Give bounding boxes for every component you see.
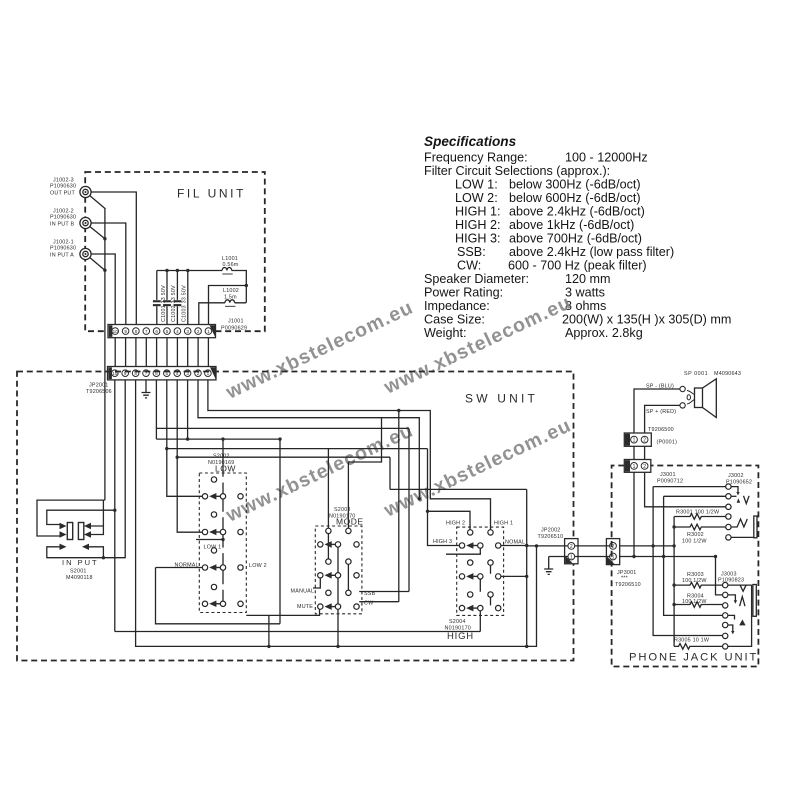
- svg-text:S2001: S2001: [70, 569, 87, 575]
- junction dot B: [103, 237, 106, 240]
- wire SSB stub: [359, 591, 409, 593]
- junction dot low row2 branch: [176, 456, 179, 459]
- wire pin9 drop to input bottom: [103, 380, 125, 558]
- wire pin4 cascade and LOW row2: [177, 380, 390, 532]
- svg-text:PHONE JACK UNIT: PHONE JACK UNIT: [629, 652, 758, 664]
- svg-text:JP2002: JP2002: [541, 528, 560, 534]
- svg-text:Impedance:: Impedance:: [424, 299, 490, 313]
- svg-text:10: 10: [113, 329, 119, 334]
- capacitor C1001: [153, 300, 161, 306]
- svg-text:MODE: MODE: [336, 517, 364, 527]
- wire NOMAL to riser: [501, 545, 527, 547]
- connector JP2002: [565, 539, 578, 564]
- switch S2001 contact left: [67, 523, 72, 540]
- wire JP3001 pin1 right: [620, 556, 716, 558]
- switch S2004 HIGH: [457, 527, 504, 615]
- JP2001 pin numbers: [112, 371, 209, 376]
- junction dot p3 end: [186, 437, 189, 440]
- wire LOW1 junction: [196, 535, 223, 548]
- connector T9206500: [624, 433, 651, 446]
- wire SP plus: [645, 405, 680, 433]
- wire pin10 net riser: [114, 380, 116, 632]
- svg-text:600 - 700 Hz (peak filter): 600 - 700 Hz (peak filter): [508, 259, 647, 273]
- svg-text:P1090630: P1090630: [50, 246, 76, 252]
- wire MODE center links: [328, 534, 348, 604]
- svg-text:P1090630: P1090630: [50, 215, 76, 221]
- svg-text:S2003: S2003: [334, 507, 351, 513]
- switch S2002 LOW: [199, 473, 246, 613]
- switch S2001 contact right: [78, 523, 83, 540]
- svg-text:0.56m: 0.56m: [223, 262, 239, 268]
- svg-text:MUTE: MUTE: [297, 604, 313, 610]
- svg-text:J3002: J3002: [728, 473, 744, 479]
- svg-text:HIGH 1: HIGH 1: [494, 521, 513, 527]
- svg-text:Power Rating:: Power Rating:: [424, 286, 503, 300]
- svg-text:R3002: R3002: [687, 532, 704, 538]
- svg-text:above 2.4kHz (-6dB/oct): above 2.4kHz (-6dB/oct): [509, 205, 645, 219]
- wire JP2002-JP3001 pin1: [575, 556, 610, 558]
- jack J3002 contact symbols: [731, 487, 757, 538]
- svg-text:FIL UNIT: FIL UNIT: [177, 187, 246, 201]
- svg-text:LOW 2:: LOW 2:: [455, 191, 498, 205]
- wire L1002 left lead: [199, 303, 223, 325]
- J1001 pin numbers: [113, 329, 210, 334]
- svg-text:JP2001: JP2001: [89, 383, 108, 389]
- wire OUT PUT to pin8: [86, 192, 137, 325]
- wire HIGH3 inner jog: [446, 548, 480, 554]
- connector J1002-2: [80, 217, 91, 228]
- svg-text:2: 2: [643, 438, 646, 444]
- wire LOW top feed: [156, 439, 280, 477]
- svg-text:T9206506: T9206506: [86, 389, 112, 395]
- junction dot high2 branch: [426, 510, 429, 513]
- svg-text:P1090823: P1090823: [718, 578, 744, 584]
- wire C1002 leg: [166, 271, 168, 325]
- wire IN PUT A to pin10: [86, 254, 116, 325]
- wire pin2 cascade: [198, 380, 419, 499]
- wire circle1 feed: [653, 487, 726, 636]
- wire C1003 leg: [176, 271, 178, 325]
- svg-text:M4090118: M4090118: [66, 575, 93, 581]
- SW UNIT dashed box: [17, 372, 574, 661]
- junction dot low top c: [278, 437, 281, 440]
- svg-text:P0090712: P0090712: [657, 479, 683, 485]
- svg-text:200(W) x 135(H )x 305(D) mm: 200(W) x 135(H )x 305(D) mm: [562, 313, 731, 327]
- svg-text:2: 2: [570, 544, 573, 550]
- svg-text:100 - 12000Hz: 100 - 12000Hz: [565, 151, 648, 165]
- wire L1001 right lead: [234, 271, 246, 303]
- wire MUTE bottom link: [337, 609, 339, 646]
- wire JP2002 pin2 left: [527, 545, 568, 547]
- svg-text:S2002: S2002: [213, 454, 230, 460]
- svg-text:OUT PUT: OUT PUT: [50, 191, 75, 197]
- connector J1002-1: [80, 248, 91, 259]
- wire J3001 pin2 down to circle3: [645, 472, 726, 507]
- svg-text:1: 1: [207, 329, 210, 334]
- FIL UNIT dashed box: [85, 172, 265, 331]
- wire pin6 cascade to SSB riser: [156, 380, 409, 592]
- svg-text:120 mm: 120 mm: [565, 272, 611, 286]
- junction dot riser bus: [525, 645, 528, 648]
- svg-text:S2004: S2004: [449, 619, 466, 625]
- connector JP2001: [108, 367, 217, 380]
- wire CW riser: [398, 411, 400, 602]
- wire pin5 cascade and LOW row1: [167, 380, 428, 496]
- svg-text:1: 1: [633, 464, 636, 470]
- capacitor C1003: [174, 300, 182, 306]
- svg-text:3 watts: 3 watts: [565, 286, 605, 300]
- capacitor C1002: [163, 300, 171, 306]
- svg-text:IN PUT: IN PUT: [62, 558, 99, 567]
- junction dot A: [103, 269, 106, 272]
- wire input bottom loop: [47, 547, 104, 558]
- svg-text:6: 6: [155, 329, 158, 334]
- svg-text:HIGH 3:: HIGH 3:: [455, 232, 501, 246]
- svg-text:1: 1: [633, 438, 636, 444]
- connector J1002-3: [80, 186, 91, 197]
- wire JP2002 pin1 left to ground: [549, 557, 568, 570]
- svg-text:LOW 1:: LOW 1:: [455, 178, 498, 192]
- svg-text:L1002: L1002: [223, 288, 239, 294]
- wire SP minus: [634, 389, 680, 433]
- svg-text:Specifications: Specifications: [424, 134, 517, 149]
- svg-text:HIGH 1:: HIGH 1:: [455, 205, 501, 219]
- svg-text:R3001 100 1/2W: R3001 100 1/2W: [676, 510, 720, 516]
- wire pin1 cascade to HIGH1: [208, 380, 491, 530]
- wire NORMAL row feed: [156, 568, 281, 624]
- resistor R3001: [674, 514, 726, 520]
- wire x715.5 drop: [716, 557, 723, 595]
- svg-text:J3001: J3001: [660, 472, 676, 478]
- svg-text:Speaker Diameter:: Speaker Diameter:: [424, 272, 529, 286]
- svg-text:SP 0001: SP 0001: [684, 371, 708, 377]
- HIGH top circles: [468, 530, 494, 598]
- wire JP3001 pin2 right: [620, 545, 674, 547]
- switch S2003 MODE: [315, 526, 362, 614]
- PHONE JACK UNIT dashed box: [612, 466, 759, 667]
- JP2001 pins: [112, 370, 212, 377]
- wire circle2 feed: [664, 496, 726, 615]
- wire pin3 drop: [187, 271, 189, 325]
- wire IN PUT A lever: [86, 254, 105, 270]
- svg-text:IN PUT B: IN PUT B: [50, 222, 74, 228]
- junction dot p10 input: [113, 509, 116, 512]
- wire C1001 leg: [156, 271, 158, 325]
- wire node V1: [104, 209, 106, 500]
- svg-text:8: 8: [135, 329, 138, 334]
- junction dot cw riser: [397, 409, 400, 412]
- wire pin8 net bottom bus: [136, 380, 537, 647]
- svg-text:CW: CW: [364, 601, 374, 607]
- svg-text:(P0001): (P0001): [657, 440, 678, 446]
- svg-text:below 300Hz (-6dB/oct): below 300Hz (-6dB/oct): [509, 178, 641, 192]
- svg-text:C1002 33 50V: C1002 33 50V: [171, 285, 177, 322]
- jack J3003 contact symbols: [728, 585, 756, 647]
- wire LOW center links: [222, 483, 224, 602]
- wire x280 riser: [279, 439, 281, 624]
- junction dot bus3: [186, 269, 189, 272]
- jack J3002 terminals: [726, 484, 731, 540]
- wire input top loop: [37, 500, 105, 536]
- svg-text:T9206500: T9206500: [648, 427, 674, 433]
- junction dot bus1: [165, 269, 168, 272]
- ground JP2002: [544, 569, 553, 574]
- wire x390 riser: [389, 457, 391, 489]
- svg-text:R3005 10 1W: R3005 10 1W: [674, 637, 710, 643]
- svg-text:HIGH 3: HIGH 3: [433, 539, 452, 545]
- resistor R3002: [674, 524, 726, 530]
- jack J3003 terminals: [723, 582, 728, 649]
- svg-text:P0090629: P0090629: [221, 326, 247, 332]
- svg-text:C1003 33 50V: C1003 33 50V: [182, 285, 188, 322]
- svg-text:P1090630: P1090630: [50, 184, 76, 190]
- ground below pin7: [142, 380, 151, 398]
- svg-text:CW:: CW:: [457, 259, 481, 273]
- svg-text:7: 7: [145, 329, 148, 334]
- wires J1001 to JP2001 links: [115, 338, 208, 367]
- wire IN PUT B to pin9: [86, 223, 126, 325]
- wire capacitor bus: [157, 270, 220, 272]
- junction dot pin2 end: [418, 497, 421, 500]
- wire HIGH center links: [480, 565, 490, 605]
- svg-text:SSB: SSB: [364, 591, 376, 597]
- wire x268.9 drop: [268, 615, 270, 646]
- svg-text:M4090643: M4090643: [714, 371, 741, 377]
- J1001 pins: [112, 328, 212, 335]
- speaker SP 0001: [687, 379, 716, 418]
- svg-text:below 600Hz (-6dB/oct): below 600Hz (-6dB/oct): [509, 191, 641, 205]
- svg-text:SW UNIT: SW UNIT: [465, 392, 538, 406]
- svg-text:4: 4: [176, 329, 179, 334]
- wire H 489.4 to NOMAL riser: [390, 488, 527, 490]
- junction dot high row4: [525, 575, 528, 578]
- svg-text:HIGH 2:: HIGH 2:: [455, 218, 501, 232]
- connector J1001: [108, 325, 216, 338]
- wire JP2002-JP3001 pin2: [575, 545, 610, 547]
- wire OUT PUT lever: [86, 192, 106, 209]
- junction dots phone jack: [632, 555, 635, 558]
- wire input right contacts: [91, 523, 103, 535]
- resistor R3005: [674, 644, 722, 650]
- junction dot mute T: [336, 645, 339, 648]
- jack J3003 arrows: [734, 600, 737, 603]
- wire CW stub: [359, 601, 399, 603]
- svg-text:above 1kHz (-6dB/oct): above 1kHz (-6dB/oct): [509, 218, 634, 232]
- svg-text:100 1/2W: 100 1/2W: [682, 539, 707, 545]
- junction dot nomal: [525, 544, 528, 547]
- svg-text:T9206510: T9206510: [538, 534, 564, 540]
- junction dot low row1 branch: [165, 447, 168, 450]
- wire IN PUT B lever: [86, 223, 105, 239]
- svg-text:LOW 1: LOW 1: [204, 545, 222, 551]
- svg-text:5: 5: [166, 329, 169, 334]
- wire L1002 tap to pin1: [209, 286, 247, 325]
- wire MODE manual stub: [313, 578, 320, 588]
- junction dot bus riser: [535, 544, 538, 547]
- svg-text:NOMAL: NOMAL: [505, 540, 525, 546]
- junction dot 646 bus: [267, 645, 270, 648]
- svg-text:IN PUT A: IN PUT A: [50, 253, 74, 259]
- inductor L1002: [223, 300, 247, 307]
- svg-text:LOW 2: LOW 2: [249, 563, 267, 569]
- junction dot input bottom: [102, 556, 105, 559]
- wire MODE right top feed: [348, 418, 381, 529]
- svg-text:SP + (RED): SP + (RED): [646, 409, 676, 415]
- jack J3002 arrows: [737, 498, 741, 503]
- wire J3001 pin1 down: [633, 472, 635, 556]
- junction dot low1: [221, 538, 224, 541]
- MODE top circles: [326, 528, 351, 595]
- svg-text:Frequency Range:: Frequency Range:: [424, 151, 528, 165]
- svg-text:SSB:: SSB:: [457, 245, 486, 259]
- svg-text:T9206510: T9206510: [615, 582, 641, 588]
- connector JP3001: [606, 539, 619, 565]
- wire lower H 631.5: [115, 631, 481, 633]
- wire HIGH row4 to riser: [501, 575, 527, 577]
- svg-text:2: 2: [197, 329, 200, 334]
- speaker terminal plus: [680, 403, 685, 408]
- svg-text:HIGH 2: HIGH 2: [446, 521, 465, 527]
- inductor L1001: [220, 268, 235, 275]
- wire input second: [47, 510, 115, 524]
- speaker terminal minus: [680, 386, 685, 391]
- svg-text:C1001 33 50V: C1001 33 50V: [161, 285, 167, 322]
- junction dot bus2: [176, 269, 179, 272]
- svg-text:100 1/2W: 100 1/2W: [682, 578, 707, 584]
- wire x427.5 drop HIGH3 HIGH2: [428, 449, 471, 546]
- svg-text:Filter Circuit Selections (app: Filter Circuit Selections (approx.):: [424, 164, 610, 178]
- wire input right upper: [102, 500, 104, 523]
- svg-text:Approx. 2.8kg: Approx. 2.8kg: [565, 326, 643, 340]
- svg-text:1: 1: [570, 555, 573, 561]
- svg-text:LOW: LOW: [215, 464, 236, 474]
- wire resistor riser: [673, 517, 675, 647]
- svg-text:9: 9: [124, 329, 127, 334]
- svg-text:100 1/2W: 100 1/2W: [682, 599, 707, 605]
- svg-text:MANUAL: MANUAL: [291, 589, 315, 595]
- wire LOW bottom link to MODE: [246, 610, 319, 616]
- svg-text:HIGH: HIGH: [447, 631, 474, 642]
- S2001 arrows: [60, 523, 92, 550]
- svg-text:above 2.4kHz (low pass filter): above 2.4kHz (low pass filter): [509, 245, 674, 259]
- svg-text:Weight:: Weight:: [424, 326, 466, 340]
- svg-text:above 700Hz (-6dB/oct): above 700Hz (-6dB/oct): [509, 232, 642, 246]
- svg-text:3: 3: [186, 329, 189, 334]
- connector J3001: [624, 460, 651, 473]
- svg-text:2: 2: [643, 464, 646, 470]
- wire pin3 drop: [187, 380, 189, 439]
- wire MODE left top feed: [327, 449, 329, 529]
- wire HIGH bottom drop: [479, 611, 481, 632]
- wire NOMAL riser: [526, 489, 528, 646]
- svg-text:***: ***: [621, 576, 629, 582]
- resistor R3004: [674, 602, 722, 608]
- svg-text:NORMAL: NORMAL: [175, 563, 199, 569]
- wire connector links: [634, 446, 645, 459]
- junction dot low top b: [221, 437, 224, 440]
- svg-text:1.5m: 1.5m: [224, 294, 237, 300]
- resistor R3003: [674, 582, 722, 588]
- junction dot L tap: [245, 284, 248, 287]
- svg-text:J1001: J1001: [228, 319, 244, 325]
- svg-text:Case Size:: Case Size:: [424, 313, 485, 327]
